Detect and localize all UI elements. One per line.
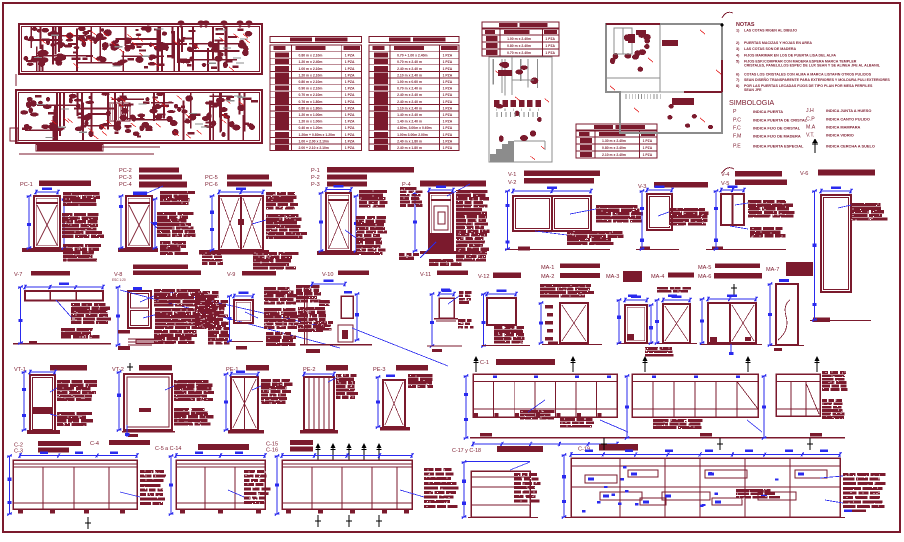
detail VT-1 elevation — [30, 375, 55, 432]
svg-text:1 PZA: 1 PZA — [345, 67, 355, 71]
detail V-7 wide window elevation — [25, 291, 103, 301]
svg-text:FIJOS MARIMAR EN LOS DE PUERTA: FIJOS MARIMAR EN LOS DE PUERTA LISA DEL … — [744, 54, 836, 58]
detail MA-1 annotations top — [540, 284, 591, 287]
detail PC-2 door elevation — [133, 192, 147, 196]
svg-text:SEAN DISEÑO TRANSPARENTE PAR: SEAN DISEÑO TRANSPARENTE PARA EXTERIORES… — [744, 77, 890, 82]
svg-text:1 PZA: 1 PZA — [643, 153, 653, 157]
detail MA-4 dimensions — [663, 299, 690, 301]
svg-text:0.70 m x 2.10m: 0.70 m x 2.10m — [299, 93, 323, 97]
svg-text:1.20 m x 2.40m: 1.20 m x 2.40m — [299, 60, 323, 64]
revision arc marks — [722, 12, 733, 18]
detail V-8 dimensions — [117, 287, 119, 345]
svg-text:V-12: V-12 — [478, 274, 490, 280]
detail VT-2 annotations — [174, 380, 209, 383]
detail MA-1 dimensions — [540, 303, 542, 343]
svg-text:V-2: V-2 — [508, 180, 516, 186]
detail C-1 annotations right — [822, 371, 828, 374]
detail P-1 dimensions — [326, 189, 351, 191]
svg-text:INDICA PUERTA DE CRISTAL: INDICA PUERTA DE CRISTAL — [753, 118, 808, 123]
svg-text:POR LAS PUERTAS LECADAS FIJOS: POR LAS PUERTAS LECADAS FIJOS DE TIPO PL… — [744, 84, 873, 88]
svg-text:M.A: M.A — [806, 125, 816, 131]
corner scale mark — [844, 510, 852, 513]
svg-text:INDICA MAMPARA: INDICA MAMPARA — [826, 125, 861, 130]
svg-text:0.80 m x 2.40m: 0.80 m x 2.40m — [507, 44, 531, 48]
detail PE-2 slat door elevation — [304, 377, 334, 430]
door schedule table A — [270, 37, 362, 43]
svg-text:MA-4: MA-4 — [651, 274, 664, 280]
detail V-3 annotations — [669, 208, 705, 211]
detail C-17 base — [468, 517, 538, 519]
svg-text:1 PZA: 1 PZA — [345, 126, 355, 130]
detail PE-1 dimensions — [231, 373, 258, 375]
detail V-12 annotations — [494, 326, 503, 329]
svg-text:1 PZA: 1 PZA — [443, 60, 453, 64]
detail C-5 annotations — [244, 470, 255, 473]
svg-text:SIMBOLOGIA: SIMBOLOGIA — [729, 98, 774, 107]
svg-text:1 PZA: 1 PZA — [443, 120, 453, 124]
svg-text:MA-2: MA-2 — [541, 274, 554, 280]
detail PC-5 dimensions — [219, 191, 263, 193]
svg-text:INDICA JUNTA A HUESO: INDICA JUNTA A HUESO — [826, 108, 871, 113]
svg-text:C-1: C-1 — [480, 360, 489, 366]
svg-text:2.40 m x 1.80 m: 2.40 m x 1.80 m — [397, 139, 422, 143]
detail C-17 desk elevation — [471, 471, 530, 517]
svg-text:0.80 m x 1.80m: 0.80 m x 1.80m — [299, 106, 323, 110]
door schedule table B — [369, 37, 459, 43]
svg-text:2.40 m x 2.40 m: 2.40 m x 2.40 m — [397, 67, 422, 71]
svg-text:P.E: P.E — [733, 144, 741, 150]
svg-text:0.80 m x 2.10m: 0.80 m x 2.10m — [299, 54, 323, 58]
svg-text:1 PZA: 1 PZA — [545, 51, 555, 55]
detail C-19 workbench top dims — [571, 454, 840, 456]
detail C-2 dimensions — [20, 455, 137, 457]
svg-text:C-17 y C-18: C-17 y C-18 — [452, 448, 481, 454]
svg-text:1.20 m x 1.00m: 1.20 m x 1.00m — [299, 120, 323, 124]
black crosses below C-15 — [315, 520, 321, 522]
detail V-6 annotations — [851, 203, 880, 206]
black arrows above C-15 counter — [317, 446, 319, 460]
svg-text:0.76 m x 1.80m: 0.76 m x 1.80m — [299, 100, 323, 104]
detail C-1 cabinet elevation A — [473, 374, 617, 417]
svg-text:1 PZA: 1 PZA — [443, 93, 453, 97]
svg-text:PC-5: PC-5 — [205, 175, 218, 181]
detail VT-2 elevation — [124, 374, 172, 430]
svg-text:1.20m + 0.80m x 1.20m: 1.20m + 0.80m x 1.20m — [299, 133, 335, 137]
detail VT-1 annotations — [57, 380, 70, 383]
svg-text:C-5 a C-14: C-5 a C-14 — [155, 446, 181, 452]
detail V-1 dimensions — [513, 190, 591, 192]
svg-text:1 PZA: 1 PZA — [345, 106, 355, 110]
svg-text:1 PZA: 1 PZA — [345, 113, 355, 117]
detail C-2 counter elevation — [13, 460, 137, 509]
svg-text:PC-6: PC-6 — [205, 182, 218, 188]
detail C-1 underline dims — [473, 443, 617, 445]
svg-text:INDICA VIDRIO: INDICA VIDRIO — [826, 133, 854, 138]
svg-text:1.00 m x 0.60 m: 1.00 m x 0.60 m — [397, 80, 422, 84]
svg-text:J.H: J.H — [806, 108, 814, 114]
detail C-19 base — [565, 517, 845, 519]
svg-text:1.00m 3.00m 2.00m: 1.00m 3.00m 2.00m — [397, 133, 428, 137]
svg-text:2.10 m x 2.40m: 2.10 m x 2.40m — [602, 153, 626, 157]
svg-text:0.70 m x 2.40 m: 0.70 m x 2.40 m — [397, 60, 422, 64]
svg-text:1 PZA: 1 PZA — [345, 146, 355, 150]
detail C-2 annotations — [140, 470, 153, 473]
svg-text:1.20 m x 2.10m: 1.20 m x 2.10m — [299, 73, 323, 77]
svg-text:PC-3: PC-3 — [119, 175, 132, 181]
upper floor plan detail — [606, 24, 722, 133]
detail V-8 base details — [118, 330, 130, 334]
black cross above MA-5 — [731, 287, 737, 289]
svg-text:1 PZA: 1 PZA — [443, 139, 453, 143]
svg-text:1 PZA: 1 PZA — [443, 113, 453, 117]
schedule table C — [482, 22, 559, 28]
detail C-5 dimensions — [176, 455, 265, 457]
detail C-1 cabinet elevation B — [632, 374, 758, 417]
detail PC-5 double door elevation — [219, 196, 263, 250]
detail MA-1 module elevation — [560, 303, 588, 343]
black cross below C-2 — [85, 522, 91, 524]
svg-text:C-4: C-4 — [90, 441, 99, 447]
detail MA-5 double module elevation — [708, 303, 756, 343]
detail C-5 counter elevation — [176, 460, 265, 509]
detail V-10 annotations — [316, 321, 321, 324]
svg-text:2.40 m x 2.40 m: 2.40 m x 2.40 m — [397, 93, 422, 97]
svg-text:V-1: V-1 — [508, 172, 516, 178]
svg-text:CRISTALES, PANELILLOS ESPEC DE: CRISTALES, PANELILLOS ESPEC DE LUX SEAN … — [744, 64, 881, 68]
sanitary plan detail — [489, 57, 552, 162]
svg-text:1 PZA: 1 PZA — [545, 44, 555, 48]
svg-text:V-11: V-11 — [420, 272, 431, 278]
detail P-1 annotations — [359, 190, 387, 193]
detail V-12 open frame elevation — [487, 298, 516, 325]
svg-text:1 PZA: 1 PZA — [345, 100, 355, 104]
svg-text:PUERTAS MACIZAS Y HOJAS EN ARE: PUERTAS MACIZAS Y HOJAS EN AREA — [744, 41, 812, 45]
detail P-4 annotations — [400, 187, 417, 190]
detail PC-2 dimensions — [120, 196, 122, 248]
svg-text:V-9: V-9 — [227, 272, 235, 278]
svg-text:1 PZA: 1 PZA — [345, 80, 355, 84]
detail V-11 dimensions — [439, 293, 454, 295]
svg-text:P-1: P-1 — [311, 168, 320, 174]
svg-text:PC-2: PC-2 — [119, 168, 132, 174]
detail MA-5 dimensions — [708, 298, 756, 300]
svg-text:1 PZA: 1 PZA — [443, 54, 453, 58]
detail C-1 annotation below A — [520, 410, 555, 413]
svg-text:SEAN JFE: SEAN JFE — [744, 88, 762, 92]
svg-text:1 PZA: 1 PZA — [345, 139, 355, 143]
detail MA-4 annotation above — [657, 287, 668, 289]
detail V-8 annotations — [154, 289, 175, 292]
floor plan level 1 — [19, 24, 262, 74]
detail PC-1 door elevation — [34, 196, 60, 248]
svg-text:1 PZA: 1 PZA — [345, 93, 355, 97]
svg-text:4.80m, 3.00m x 0.60m: 4.80m, 3.00m x 0.60m — [397, 126, 432, 130]
detail PE-3 dimensions — [386, 375, 395, 378]
svg-text:LAS COTAS SON DE MADERA: LAS COTAS SON DE MADERA — [744, 47, 796, 51]
svg-text:F.C: F.C — [733, 126, 741, 132]
floor plan level 2 — [16, 90, 262, 143]
svg-text:INDICA PUERTA ESPECIAL: INDICA PUERTA ESPECIAL — [753, 144, 804, 149]
svg-text:1 PZA: 1 PZA — [443, 73, 453, 77]
detail V-4 window elevation — [721, 194, 744, 225]
detail MA-7 dimensions — [769, 284, 771, 345]
svg-text:MA-5: MA-5 — [698, 265, 711, 271]
svg-text:0.70 m x 2.40 m: 0.70 m x 2.40 m — [397, 87, 422, 91]
svg-text:0.70 + 1.00 x 2.40m: 0.70 + 1.00 x 2.40m — [397, 54, 427, 58]
detail V-4 dimensions — [721, 189, 744, 191]
detail C-19 workbench elevation — [571, 458, 840, 517]
svg-text:PC-4: PC-4 — [119, 182, 132, 188]
svg-text:P-2: P-2 — [311, 175, 320, 181]
svg-text:INDICA CERCHA A SUELO: INDICA CERCHA A SUELO — [826, 144, 875, 149]
detail PC-5 annotations — [266, 192, 275, 195]
svg-text:MA-3: MA-3 — [606, 274, 619, 280]
svg-text:V-4: V-4 — [721, 172, 729, 178]
svg-text:P-3: P-3 — [311, 182, 320, 188]
detail C-1 annotation below B — [653, 419, 669, 422]
svg-text:V-3: V-3 — [638, 184, 646, 190]
svg-text:V-7: V-7 — [14, 272, 22, 278]
detail P-1 door elevation — [326, 193, 351, 251]
detail V-11 window sill detail — [439, 298, 454, 318]
detail PE-1 door elevation — [231, 377, 258, 430]
detail V-3 window elevation — [647, 194, 672, 230]
detail V-12 dimensions — [487, 293, 516, 295]
svg-text:1.20 m x 1.00m: 1.20 m x 1.00m — [299, 113, 323, 117]
svg-text:1.00 m x 2.40m: 1.00 m x 2.40m — [507, 37, 531, 41]
svg-text:INDICA PUERTA: INDICA PUERTA — [753, 109, 783, 114]
svg-text:1 PZA: 1 PZA — [643, 139, 653, 143]
detail PC-1 annotations — [63, 192, 99, 195]
schedule table D — [576, 124, 657, 130]
svg-text:1 PZA: 1 PZA — [643, 146, 653, 150]
svg-text:NOTAS: NOTAS — [736, 22, 755, 28]
svg-text:V.T.: V.T. — [806, 133, 814, 139]
svg-text:INDICA FIJO DE CRISTAL: INDICA FIJO DE CRISTAL — [753, 126, 801, 131]
svg-text:1.00 m x 2.10m: 1.00 m x 2.10m — [299, 67, 323, 71]
svg-text:2.00 + 2.10 x 2.10m: 2.00 + 2.10 x 2.10m — [299, 146, 329, 150]
svg-text:PE-3: PE-3 — [373, 367, 385, 373]
svg-text:1 PZA: 1 PZA — [443, 106, 453, 110]
detail V-9 annotations — [264, 287, 276, 290]
black arrows above C-1 cabinets — [475, 359, 477, 372]
detail V-10 sill section — [304, 286, 306, 344]
svg-text:COTAS LOS CRISTALES CON ALMA: COTAS LOS CRISTALES CON ALMA A MARCA LIS… — [744, 73, 872, 77]
detail V-9 window elevation — [234, 300, 253, 323]
detail P-4 door elevation — [429, 193, 453, 251]
detail V-11 annotations — [459, 291, 464, 294]
detail MA-3 dimensions — [625, 299, 647, 301]
svg-text:C.P: C.P — [806, 117, 815, 123]
detail V-10 long leader to PE-3 — [352, 328, 448, 366]
long blue leaders across V-8 V-9 zone — [120, 290, 340, 348]
svg-text:V-6: V-6 — [800, 171, 808, 177]
detail PC-2 annotations — [160, 191, 195, 194]
detail PE-2 annotations — [336, 374, 342, 377]
svg-text:1.10 m x 2.40 m: 1.10 m x 2.40 m — [397, 106, 422, 110]
detail V-10 dimensions — [312, 283, 345, 285]
detail C-17 dimensions — [466, 461, 530, 463]
detail C-19 annotations right — [843, 473, 856, 476]
svg-text:1 PZA: 1 PZA — [443, 146, 453, 150]
svg-text:1 PZA: 1 PZA — [443, 80, 453, 84]
svg-text:1.30 m x 2.40m: 1.30 m x 2.40m — [602, 139, 626, 143]
detail PE-2 dimensions — [304, 373, 334, 375]
detail C-17 annotations — [514, 473, 520, 476]
svg-text:P: P — [733, 109, 737, 115]
detail C-1 base line — [470, 437, 845, 439]
detail C-19 center annotation — [736, 489, 771, 492]
svg-text:MA-1: MA-1 — [541, 265, 554, 271]
detail VT-1 dimensions — [30, 371, 55, 373]
svg-text:1.00 + 2.00 x 2.10m: 1.00 + 2.00 x 2.10m — [299, 139, 329, 143]
detail V-6 dimensions — [821, 190, 851, 192]
detail V-3 dimensions — [647, 189, 672, 191]
svg-text:1 PZA: 1 PZA — [443, 133, 453, 137]
svg-text:1 PZA: 1 PZA — [345, 60, 355, 64]
svg-text:1 PZA: 1 PZA — [345, 87, 355, 91]
svg-text:LAS COTAS RIGEN AL DIBUJO: LAS COTAS RIGEN AL DIBUJO — [744, 29, 797, 33]
detail PE-3 door elevation — [383, 380, 405, 427]
svg-text:PC-1: PC-1 — [20, 182, 33, 188]
detail C-19 dimensions left — [563, 455, 565, 517]
detail MA-3 module elevation — [625, 305, 647, 343]
detail V-1 window elevation — [513, 196, 591, 231]
svg-text:1 PZA: 1 PZA — [443, 100, 453, 104]
svg-text:1.40 m x 2.40 m: 1.40 m x 2.40 m — [397, 113, 422, 117]
svg-text:1 PZA: 1 PZA — [345, 73, 355, 77]
svg-text:MA-6: MA-6 — [698, 274, 711, 280]
svg-text:1 PZA: 1 PZA — [545, 37, 555, 41]
svg-text:C-16: C-16 — [266, 448, 278, 454]
svg-text:INDICA CANTO PULIDO: INDICA CANTO PULIDO — [826, 117, 870, 122]
svg-text:0.80 m x 2.40m: 0.80 m x 2.40m — [602, 146, 626, 150]
detail V-6 tall window elevation — [821, 195, 851, 292]
detail V-7 dimensions — [25, 286, 103, 288]
svg-text:0.90 m x 2.10m: 0.90 m x 2.10m — [299, 87, 323, 91]
cercha a suelo arrow symbol — [814, 142, 816, 153]
detail PC-1 dimensions — [28, 196, 30, 248]
svg-text:V-10: V-10 — [322, 272, 334, 278]
svg-text:1 PZA: 1 PZA — [443, 67, 453, 71]
detail PE-3 annotations — [408, 374, 433, 377]
svg-text:MA-7: MA-7 — [766, 267, 779, 273]
black crosses above C-19 — [601, 443, 607, 445]
svg-text:1 PZA: 1 PZA — [443, 87, 453, 91]
detail V-4 annotations — [748, 200, 761, 203]
detail MA-4 module elevation — [663, 304, 690, 343]
detail C-1 cabinet elevation C — [776, 374, 820, 416]
detail C-15 annotations — [424, 468, 433, 471]
svg-text:2.40 m x 2.40 m: 2.40 m x 2.40 m — [397, 100, 422, 104]
svg-text:2.40 m x 1.80 m: 2.40 m x 1.80 m — [397, 146, 422, 150]
detail MA-7 tall module elevation — [776, 284, 798, 345]
detail VT-2 dimensions — [118, 372, 120, 430]
svg-text:INDICA FIJO DE MADERA: INDICA FIJO DE MADERA — [753, 134, 801, 139]
svg-text:F.M: F.M — [733, 134, 741, 140]
svg-text:P.C: P.C — [733, 118, 741, 124]
detail V-9 dimensions — [234, 295, 253, 297]
svg-text:2.10 m x 2.40 m: 2.10 m x 2.40 m — [397, 73, 422, 77]
svg-text:0.80 m x 2.10m: 0.80 m x 2.10m — [299, 80, 323, 84]
svg-text:1.40 m x 2.40 m: 1.40 m x 2.40 m — [397, 120, 422, 124]
detail V-7 annotations — [71, 303, 80, 306]
svg-text:0.70 m x 2.40m: 0.70 m x 2.40m — [507, 51, 531, 55]
svg-text:1 PZA: 1 PZA — [345, 54, 355, 58]
svg-text:ESC 1:20: ESC 1:20 — [112, 278, 126, 282]
svg-text:1 PZA: 1 PZA — [345, 133, 355, 137]
detail C-15 counter elevation — [282, 460, 412, 509]
detail PE-1 annotations — [261, 379, 271, 382]
svg-text:0.40 m x 1.20m: 0.40 m x 1.20m — [299, 126, 323, 130]
detail V-1 annotations — [596, 205, 638, 208]
detail C-15 dimensions — [282, 455, 412, 457]
svg-text:1 PZA: 1 PZA — [443, 126, 453, 130]
detail V-8 stacked window elevation — [133, 287, 142, 290]
detail P-4 dimensions — [414, 193, 416, 251]
svg-text:1 PZA: 1 PZA — [345, 120, 355, 124]
detail MA-5 annotation below — [645, 347, 658, 350]
